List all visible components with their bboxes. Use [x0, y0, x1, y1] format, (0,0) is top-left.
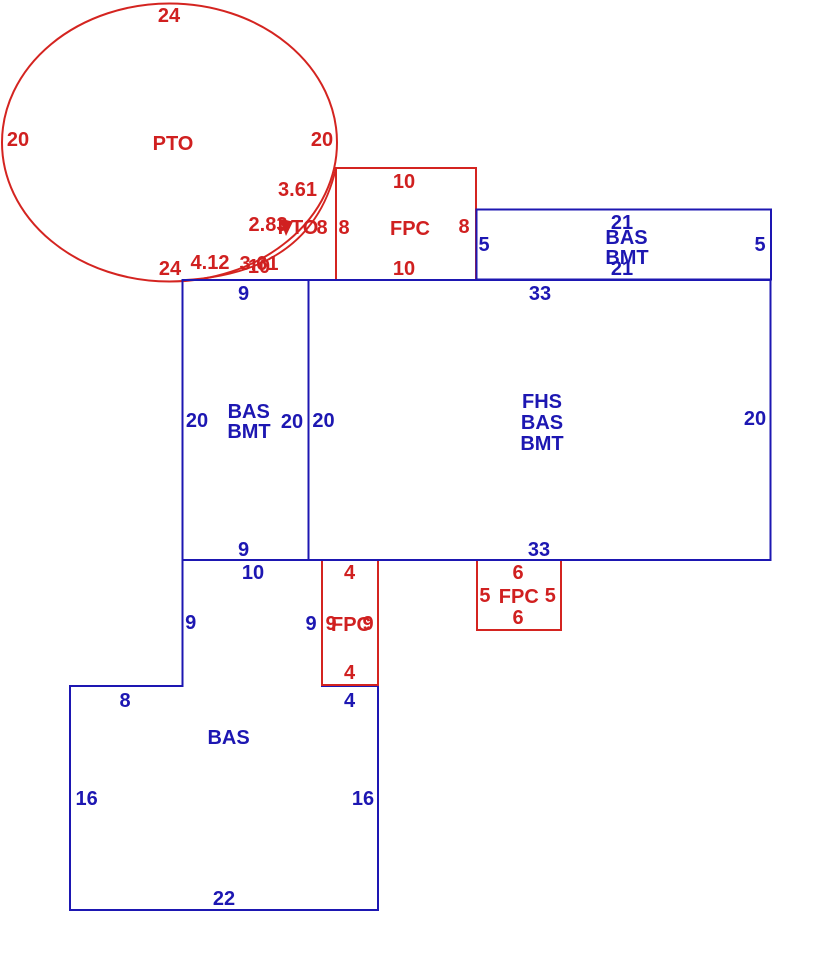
svg-text:BAS: BAS [207, 727, 249, 749]
svg-text:24: 24 [158, 5, 181, 27]
svg-text:PTO: PTO [153, 133, 194, 155]
svg-text:BAS: BAS [521, 412, 563, 434]
room FHS BAS BMT big rectangle [309, 280, 771, 560]
svg-text:BAS: BAS [605, 227, 647, 249]
svg-text:4: 4 [344, 662, 356, 684]
svg-text:20: 20 [186, 410, 208, 432]
svg-text:4.12: 4.12 [191, 252, 230, 274]
svg-text:10: 10 [393, 258, 415, 280]
svg-text:8: 8 [338, 217, 349, 239]
room BAS BMT left middle rectangle [183, 280, 309, 560]
svg-text:8: 8 [458, 216, 469, 238]
svg-text:5: 5 [479, 585, 490, 607]
svg-text:6: 6 [512, 562, 523, 584]
svg-text:9: 9 [238, 283, 249, 305]
svg-text:5: 5 [545, 585, 556, 607]
svg-text:16: 16 [352, 788, 374, 810]
svg-text:4: 4 [344, 690, 356, 712]
svg-text:20: 20 [7, 129, 29, 151]
small PTO curved edge [184, 168, 336, 280]
svg-text:33: 33 [528, 539, 550, 561]
svg-text:FPC: FPC [499, 586, 539, 608]
porch FPC lower rectangle [322, 560, 378, 685]
ellipse patio PTO [2, 4, 337, 282]
svg-text:20: 20 [312, 410, 334, 432]
svg-text:9: 9 [362, 613, 373, 635]
svg-text:10: 10 [393, 171, 415, 193]
porch FPC right rectangle [477, 560, 561, 630]
svg-text:9: 9 [185, 612, 196, 634]
svg-text:5: 5 [754, 234, 765, 256]
svg-text:10: 10 [248, 256, 270, 278]
svg-text:PTO: PTO [278, 217, 319, 239]
svg-text:22: 22 [213, 888, 235, 910]
room BAS lower polygon [70, 560, 378, 910]
svg-text:24: 24 [159, 258, 182, 280]
svg-text:BAS: BAS [228, 401, 270, 423]
svg-text:9: 9 [305, 613, 316, 635]
svg-text:BMT: BMT [520, 433, 563, 455]
svg-text:8: 8 [119, 690, 130, 712]
svg-text:8: 8 [316, 217, 327, 239]
arrow to small PTO [280, 219, 294, 236]
wire blue line y560 redraw [183, 559, 771, 561]
svg-text:20: 20 [744, 408, 766, 430]
svg-text:3.61: 3.61 [278, 179, 317, 201]
porch FPC upper rectangle [336, 168, 476, 280]
svg-text:FPC: FPC [390, 218, 430, 240]
svg-text:9: 9 [238, 539, 249, 561]
basement BAS BMT upper right rectangle [477, 210, 772, 280]
svg-text:BMT: BMT [227, 421, 270, 443]
svg-text:16: 16 [75, 788, 97, 810]
svg-text:5: 5 [478, 234, 489, 256]
svg-text:21: 21 [611, 258, 633, 280]
svg-text:FHS: FHS [522, 391, 562, 413]
svg-text:20: 20 [311, 129, 333, 151]
svg-text:4: 4 [344, 562, 356, 584]
svg-text:20: 20 [281, 411, 303, 433]
svg-text:10: 10 [242, 562, 264, 584]
svg-text:33: 33 [529, 283, 551, 305]
svg-text:6: 6 [512, 607, 523, 629]
